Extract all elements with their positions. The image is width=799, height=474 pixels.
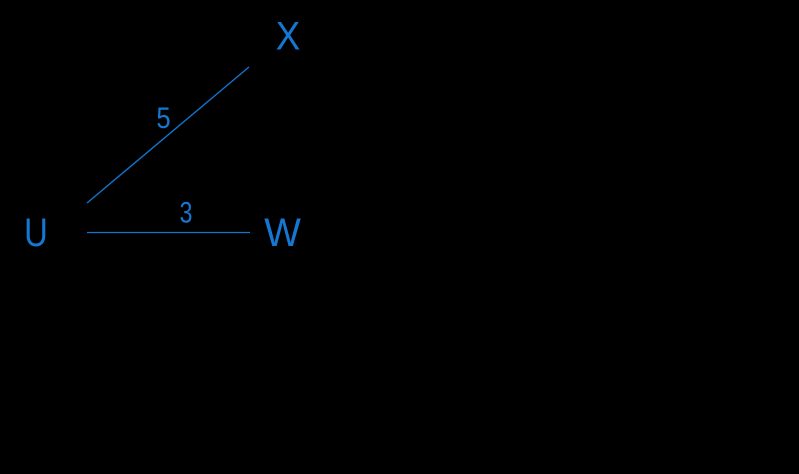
svg-text:5: 5 bbox=[156, 101, 170, 134]
svg-text:X: X bbox=[276, 14, 301, 59]
svg-text:W: W bbox=[264, 210, 301, 255]
edge U-W bbox=[87, 232, 250, 234]
svg-text:U: U bbox=[24, 210, 48, 255]
svg-text:3: 3 bbox=[180, 196, 193, 229]
edge U-X bbox=[87, 67, 249, 203]
